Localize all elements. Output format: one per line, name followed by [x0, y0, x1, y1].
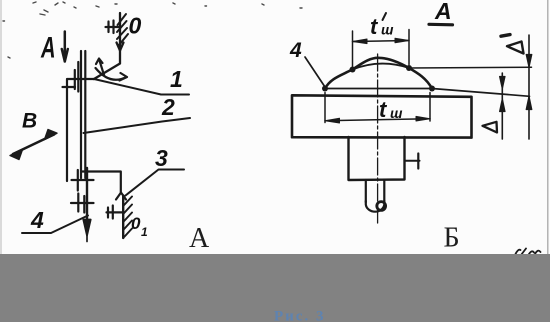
svg-text:0: 0 — [131, 214, 141, 233]
svg-text:3: 3 — [155, 145, 168, 171]
label delta-prime — [507, 42, 524, 54]
ring — [377, 202, 386, 211]
pivot O1 ticks — [107, 206, 124, 219]
base line — [325, 89, 530, 97]
svg-text:4: 4 — [289, 39, 302, 62]
dim delta-prime arrow down — [526, 55, 532, 68]
dim tsh extension left — [324, 93, 326, 123]
svg-text:1: 1 — [141, 225, 148, 239]
dim t'sh arrow left — [353, 39, 368, 44]
upper extension line — [409, 66, 532, 69]
plate — [292, 95, 472, 137]
block — [349, 137, 405, 180]
svg-text:А: А — [434, 0, 452, 24]
electrode lever — [81, 51, 85, 178]
leader 3 — [126, 170, 185, 196]
dim t'sh extension left — [352, 31, 354, 67]
centerline — [377, 54, 379, 223]
svg-text:2: 2 — [161, 94, 175, 120]
svg-text:Б: Б — [444, 223, 460, 254]
rod — [63, 80, 76, 182]
dim tsh extension right — [429, 93, 431, 122]
dim tsh arrow right — [416, 116, 430, 121]
bead dot right base — [429, 86, 435, 92]
pivot O hatching — [117, 14, 128, 45]
neck — [365, 180, 367, 202]
page edge left — [0, 0, 2, 255]
gray bar — [0, 254, 550, 322]
arrow A — [62, 32, 68, 62]
dim delta shaft — [501, 73, 503, 139]
svg-text:0: 0 — [129, 13, 142, 39]
speckles — [3, 2, 302, 58]
weld bead dome — [325, 58, 432, 89]
link from O — [94, 13, 124, 79]
leader 4 — [22, 216, 88, 234]
svg-text:В: В — [22, 110, 37, 133]
bead chord arc — [353, 64, 410, 70]
hinge joint bottom — [71, 194, 94, 213]
dim t'sh arrow right — [395, 38, 409, 43]
dim delta arrow down — [500, 77, 505, 89]
dim tsh line — [325, 119, 430, 121]
svg-text:А: А — [189, 223, 210, 254]
bead dot left base — [322, 86, 328, 92]
link to O1 — [82, 172, 126, 200]
bead dot right top — [406, 65, 412, 71]
pivot O1 bar — [122, 196, 124, 239]
force arrow down — [83, 168, 90, 242]
double arrow B — [10, 130, 57, 160]
leader 4 right — [305, 57, 325, 87]
dim tsh arrow left — [325, 118, 340, 123]
bead dot left top — [350, 67, 356, 73]
page edge right — [547, 0, 549, 255]
dim delta-prime shaft — [528, 35, 530, 139]
tip — [366, 201, 385, 212]
svg-text:ш: ш — [381, 22, 394, 38]
hinge joint top — [67, 62, 94, 92]
swing arrow — [96, 59, 104, 76]
swing arc — [96, 68, 128, 81]
pivot O1 hatching — [123, 197, 132, 239]
handwriting marks bottom right — [515, 249, 541, 256]
pin — [405, 160, 420, 162]
pivot O ticks — [106, 21, 121, 34]
dim t'sh line — [353, 41, 410, 42]
svg-text:Рис. 3: Рис. 3 — [274, 309, 325, 322]
hinge joint mid — [72, 170, 94, 191]
dim delta arrow up — [500, 99, 505, 112]
dim delta-prime arrow up — [526, 96, 532, 109]
svg-text:1: 1 — [170, 66, 183, 92]
label delta — [483, 122, 498, 133]
svg-text:4: 4 — [30, 207, 44, 233]
svg-text:ш: ш — [390, 105, 403, 121]
leader 1 — [94, 79, 189, 95]
dim t'sh extension right — [408, 30, 410, 65]
leader 2 — [84, 118, 191, 133]
svg-text:А: А — [40, 32, 55, 65]
